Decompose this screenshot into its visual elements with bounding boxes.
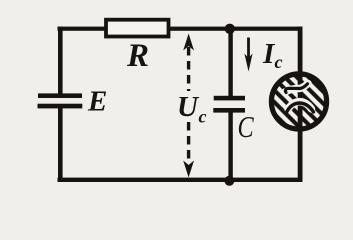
battery E plates	[38, 93, 83, 108]
svg-text:R: R	[126, 38, 149, 74]
wire left upper	[58, 27, 63, 95]
neon lamp lower electrode	[287, 102, 314, 113]
capacitor C plates	[213, 96, 245, 113]
svg-text:c: c	[199, 107, 207, 127]
node junction bottom	[224, 176, 234, 186]
neon lamp body hatched	[271, 74, 326, 129]
neon lamp upper electrode	[285, 84, 308, 93]
node junction top	[225, 24, 235, 34]
voltage Uc label	[177, 91, 207, 127]
voltage Uc dashed arrow	[183, 34, 194, 178]
wire capacitor branch lower	[228, 111, 232, 180]
svg-text:U: U	[177, 91, 200, 123]
svg-text:c: c	[275, 52, 283, 72]
wire capacitor branch upper	[228, 28, 232, 97]
current Ic arrow	[244, 38, 252, 72]
svg-text:C: C	[238, 110, 255, 145]
wire left lower	[58, 107, 63, 183]
current Ic label	[262, 38, 283, 72]
wire bottom	[58, 178, 303, 182]
wire top	[58, 27, 303, 31]
svg-text:E: E	[87, 86, 107, 118]
wire right	[298, 27, 303, 182]
neon lamp wire through	[298, 74, 303, 129]
resistor R box	[106, 20, 169, 37]
